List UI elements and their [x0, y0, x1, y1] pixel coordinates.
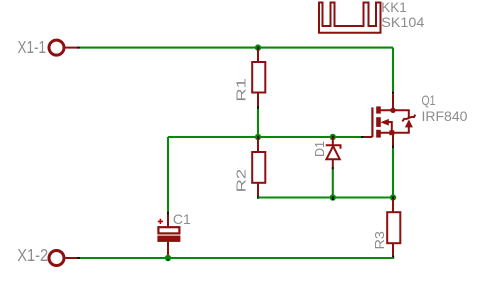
capacitor C1 bottom plate — [157, 236, 180, 242]
terminal X1-2 pad circle — [49, 251, 64, 266]
node junction C1 bottom rail — [165, 255, 171, 261]
resistor R2 pin end tick — [257, 196, 259, 199]
wire top rail right vertical down to Q1 drain — [392, 48, 394, 92]
terminal X1-2 pin — [66, 257, 80, 259]
capacitor C1 top lead — [167, 215, 169, 228]
transistor Q1 source pin — [392, 133, 394, 146]
resistor R1 body — [252, 62, 265, 93]
svg-text:Q1: Q1 — [422, 92, 436, 108]
resistor R1 pin end tick — [257, 106, 259, 109]
terminal X1-2 pin end tick — [77, 257, 80, 259]
transistor Q1 body diode zener bar — [402, 115, 415, 122]
capacitor C1 pin end tick top — [167, 211, 169, 214]
transistor Q1 source pin end tick — [392, 146, 394, 149]
wire R1 bottom to gate net — [257, 109, 259, 137]
resistor R1 pin bottom — [257, 93, 259, 108]
transistor Q1 body diode cathode lead — [408, 110, 410, 117]
resistor R3 pin top — [392, 199, 394, 212]
svg-text:R1: R1 — [234, 78, 249, 102]
transistor Q1 drain junction blob — [390, 108, 395, 113]
diode D1 pin bottom — [332, 160, 334, 169]
resistor R2 pin bottom — [257, 183, 259, 198]
transistor Q1 body diode anode lead — [408, 127, 410, 133]
wire gate net horizontal — [168, 136, 361, 138]
svg-text:C1: C1 — [173, 211, 191, 227]
transistor Q1 channel plate body — [376, 117, 381, 127]
node junction R1/R2/gate — [255, 134, 261, 140]
svg-text:R2: R2 — [234, 169, 249, 193]
terminal X1-1 pin — [66, 47, 80, 49]
svg-text:R3: R3 — [372, 231, 387, 250]
node junction Q1 source / R3 top — [390, 194, 396, 200]
resistor R1 pin top — [257, 49, 259, 62]
transistor Q1 source rail horizontal — [380, 132, 409, 134]
svg-text:IRF840: IRF840 — [422, 108, 468, 124]
transistor Q1 gate bar — [371, 107, 373, 137]
diode D1 triangle — [326, 146, 339, 159]
wire bottom rail — [80, 257, 393, 259]
wire Q1 source to source net — [392, 148, 394, 197]
svg-text:D1: D1 — [312, 141, 327, 157]
transistor Q1 drain pin end tick — [392, 91, 394, 94]
diode D1 pin top — [332, 138, 334, 145]
terminal X1-1 pin end tick — [77, 47, 80, 49]
terminal X1-1 pad circle — [49, 40, 64, 55]
svg-text:X1-2: X1-2 — [17, 245, 48, 265]
diode D1 zener cathode bar — [326, 145, 341, 149]
diode D1 pin end tick — [332, 167, 334, 169]
wire top rail horizontal — [80, 47, 393, 49]
wire gate net left vertical down to C1 — [167, 137, 169, 211]
resistor R2 body — [252, 152, 265, 183]
transistor Q1 source junction blob — [389, 130, 394, 135]
transistor Q1 body arrow — [380, 119, 388, 126]
transistor Q1 body diode triangle — [405, 119, 413, 127]
transistor Q1 channel plate source — [376, 130, 381, 138]
transistor Q1 gate pin end tick — [361, 136, 364, 138]
capacitor C1 plus sign — [158, 219, 163, 224]
transistor Q1 drain rail horizontal — [380, 109, 409, 111]
resistor R2 pin top — [257, 139, 259, 153]
capacitor C1 bottom lead — [167, 242, 169, 258]
transistor Q1 body arrow tail — [388, 122, 392, 133]
svg-text:KK1: KK1 — [381, 0, 407, 15]
resistor R3 pin end tick — [392, 256, 394, 259]
capacitor C1 top plate — [158, 227, 179, 233]
svg-text:X1-1: X1-1 — [18, 37, 47, 57]
transistor Q1 drain pin — [392, 94, 394, 110]
node junction R1 top — [255, 44, 261, 50]
transistor Q1 gate pin — [363, 136, 372, 138]
resistor R3 body — [387, 212, 400, 243]
resistor R3 pin bottom — [392, 243, 394, 258]
heatsink KK1 body — [319, 3, 381, 33]
node junction D1 top / gate net — [330, 134, 336, 140]
svg-text:SK104: SK104 — [381, 14, 424, 30]
node junction D1 bottom — [330, 194, 336, 200]
wire D1 bottom to source net — [332, 170, 334, 198]
transistor Q1 channel plate drain — [376, 106, 381, 113]
wire source net horizontal — [258, 196, 393, 198]
